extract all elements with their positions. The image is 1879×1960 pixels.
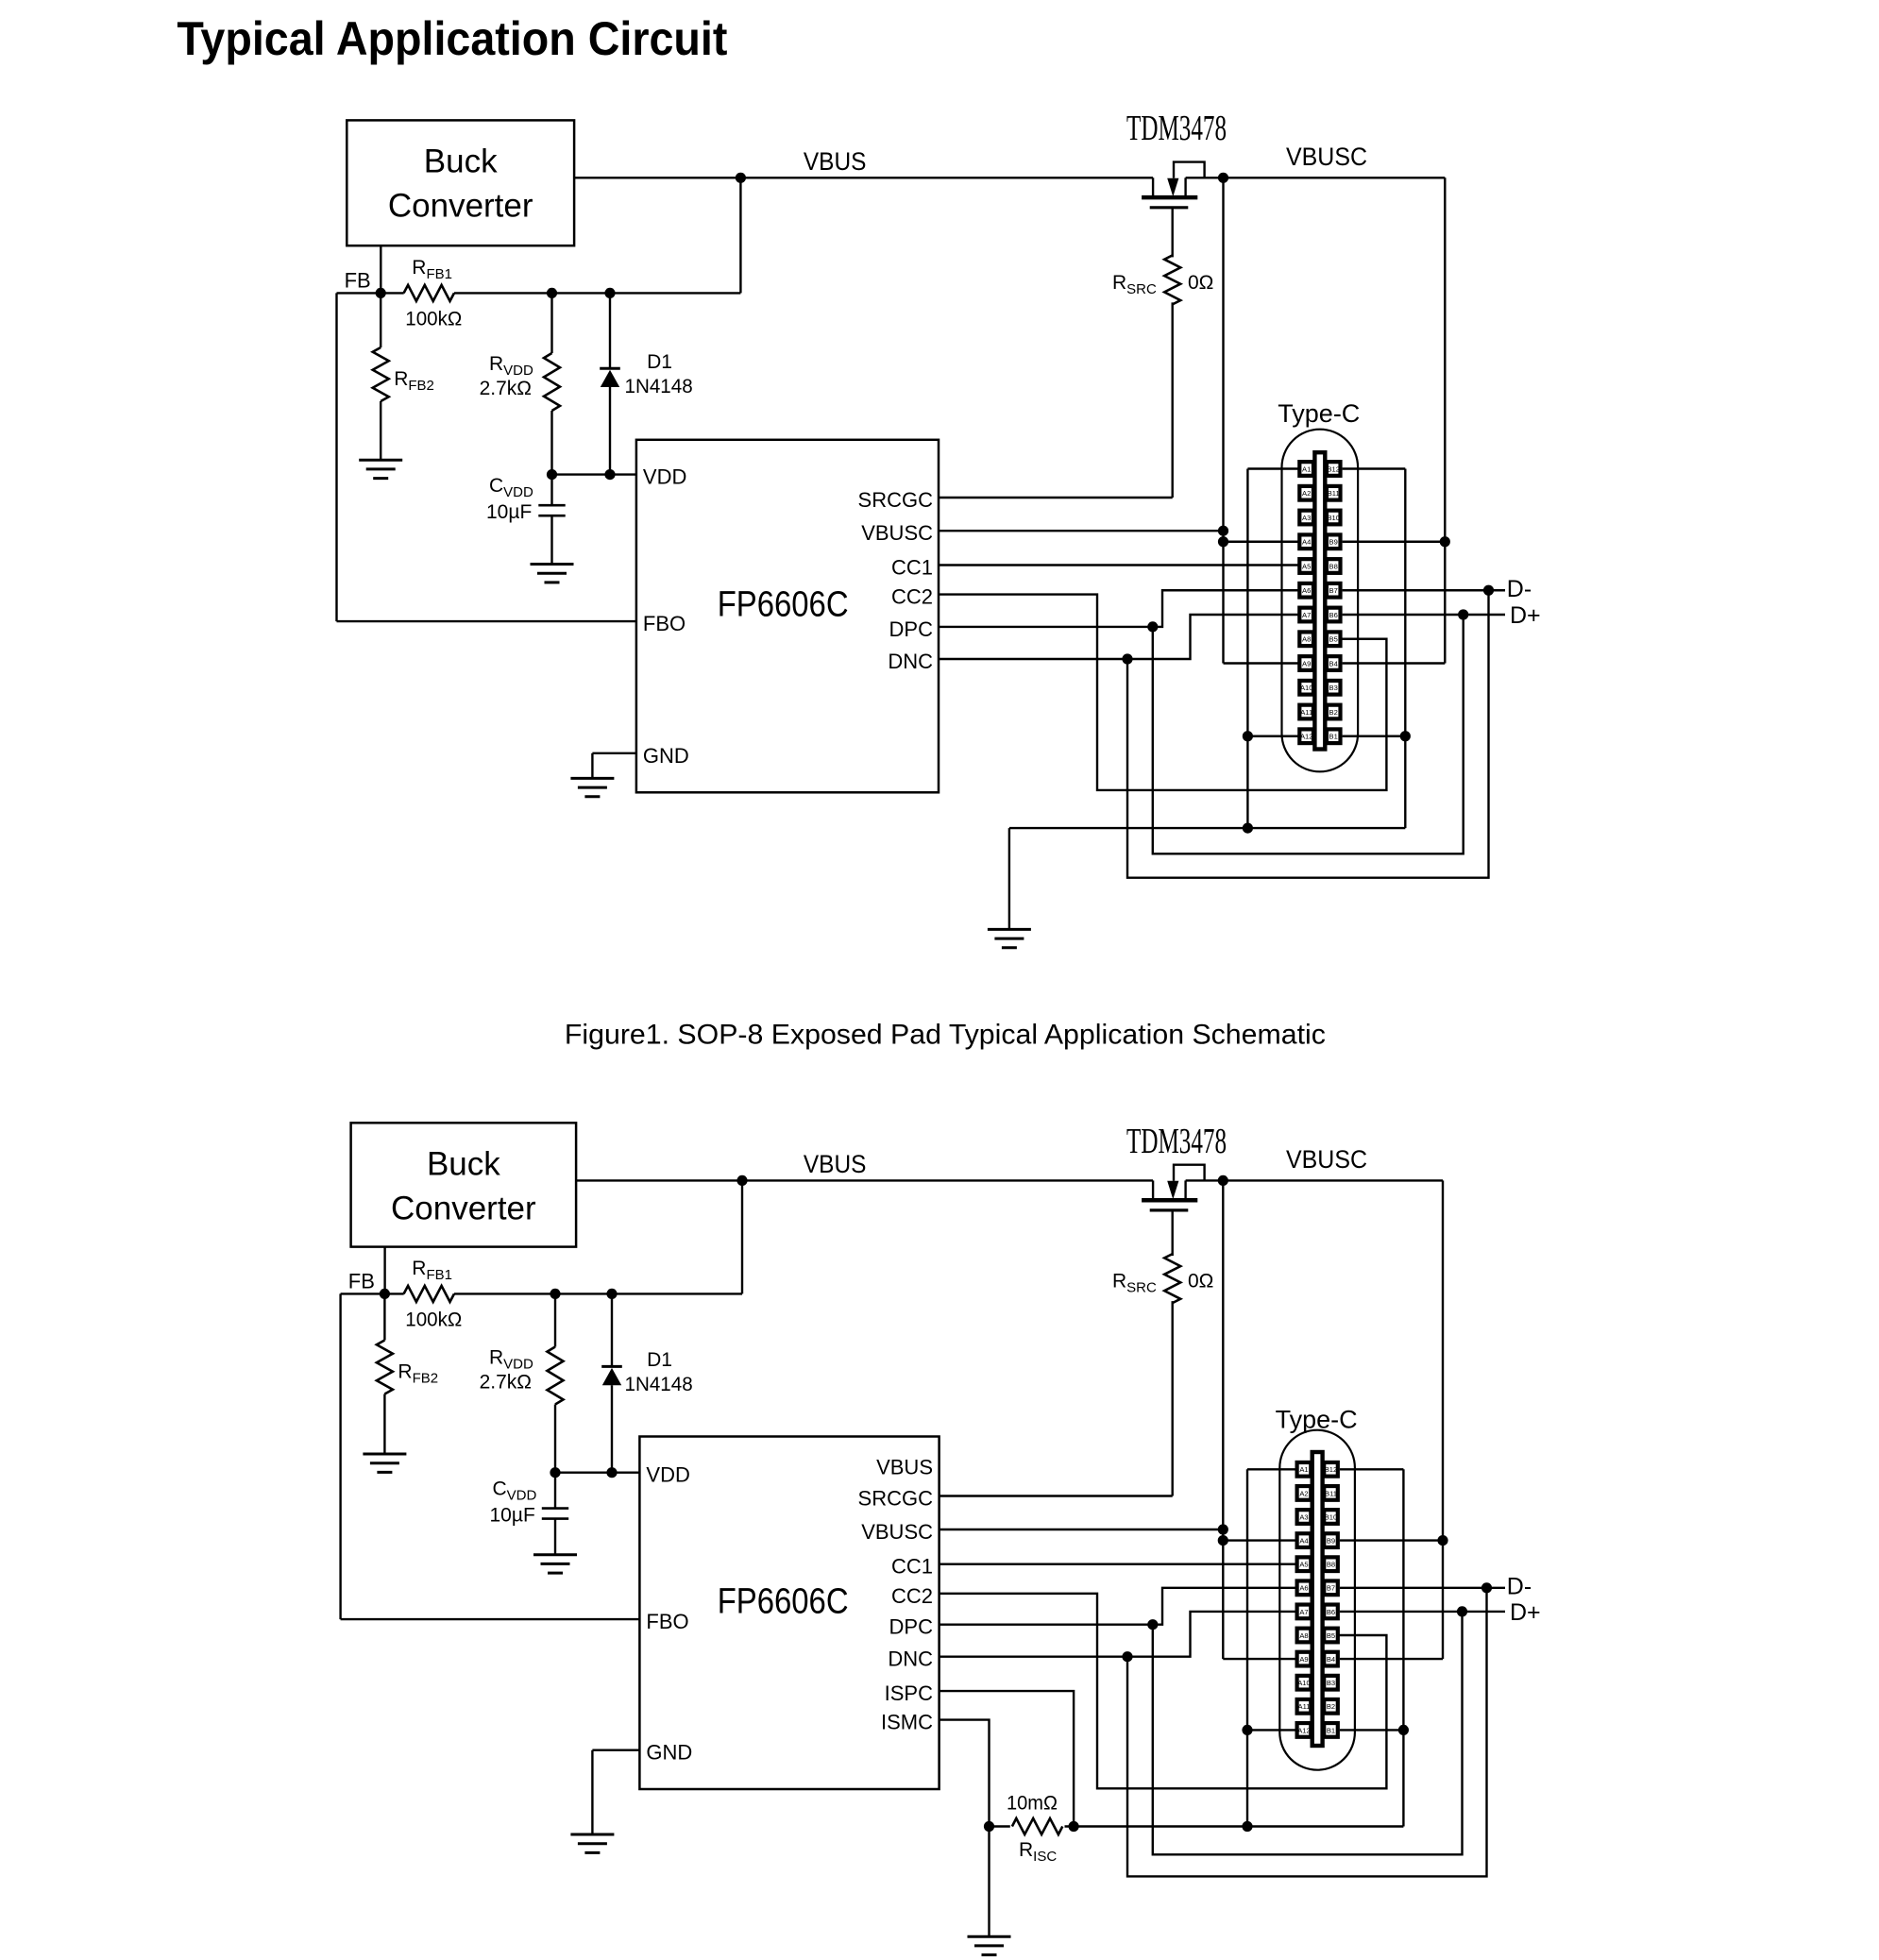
svg-text:DNC: DNC <box>888 1647 933 1671</box>
svg-text:FBO: FBO <box>646 1610 688 1633</box>
connector pin B2 <box>1324 1699 1338 1714</box>
wire pin B6 to D+ <box>1343 614 1505 616</box>
svg-text:100kΩ: 100kΩ <box>405 308 462 329</box>
svg-text:VBUSC: VBUSC <box>1286 143 1367 171</box>
svg-text:VBUSC: VBUSC <box>861 1520 933 1544</box>
svg-text:A4: A4 <box>1299 1537 1308 1546</box>
junction VDD / D1 <box>606 1467 617 1478</box>
wire VBUS from Buck to Q1 source <box>576 1179 1153 1181</box>
svg-text:GND: GND <box>643 744 689 768</box>
wire DNC to pin A7 <box>939 1612 1297 1657</box>
wire into FBO pin <box>341 1618 640 1620</box>
wire FB to RFB1 <box>381 292 404 294</box>
svg-text:VBUS: VBUS <box>804 147 867 176</box>
junction RFB1 line / D1 <box>606 1289 617 1299</box>
wire FB node to left return <box>341 1293 385 1294</box>
svg-text:B7: B7 <box>1329 586 1338 595</box>
IC FP6606C (Figure 1) <box>636 440 939 793</box>
wire to pin A4 <box>1224 541 1300 543</box>
Buck Converter block (Figure 1) <box>347 120 574 245</box>
svg-text:A4: A4 <box>1302 538 1311 547</box>
svg-text:A12: A12 <box>1297 1726 1311 1734</box>
connector pin B4 <box>1327 656 1341 670</box>
svg-text:A11: A11 <box>1298 1702 1311 1711</box>
svg-text:FB: FB <box>348 1270 375 1293</box>
connector pin B11 <box>1327 486 1341 500</box>
svg-text:B1: B1 <box>1329 733 1338 741</box>
svg-text:VDD: VDD <box>646 1463 689 1487</box>
svg-text:A1: A1 <box>1299 1465 1308 1474</box>
wire VBUSC pin of IC <box>939 530 1224 532</box>
wire FB to RFB2 <box>380 293 381 347</box>
connector pin B12 <box>1327 462 1341 476</box>
svg-text:VBUS: VBUS <box>876 1456 933 1479</box>
svg-text:DPC: DPC <box>889 617 934 641</box>
junction D+ <box>1457 1606 1467 1616</box>
connector pin A5 <box>1299 559 1313 573</box>
wire CVDD to ground <box>550 515 552 564</box>
wire RFB1 to VBUS branch <box>454 1293 742 1294</box>
junction node FB <box>376 288 386 298</box>
svg-text:B11: B11 <box>1325 1489 1337 1497</box>
wire RFB1 line to D1 cathode <box>609 293 611 368</box>
connector pin A5 <box>1297 1557 1312 1571</box>
junction ISMC / RISC <box>984 1821 994 1832</box>
svg-text:B5: B5 <box>1329 635 1338 644</box>
svg-text:B2: B2 <box>1329 708 1338 717</box>
svg-text:2.7kΩ: 2.7kΩ <box>480 378 532 399</box>
wire Q1 drain VBUSC <box>1186 177 1446 178</box>
wire to RVDD <box>554 1293 556 1346</box>
transistor Q1 TDM3478 PMOS <box>1152 177 1154 197</box>
wire DPC to D+ <box>1153 615 1464 853</box>
svg-text:A3: A3 <box>1302 514 1311 522</box>
wire to pin A4 <box>1223 1539 1297 1541</box>
resistor RSRC 0ohm <box>1164 1254 1180 1303</box>
wire DNC to D- <box>1127 590 1489 877</box>
svg-text:D1: D1 <box>647 351 672 373</box>
svg-text:A3: A3 <box>1299 1512 1308 1521</box>
connector pin A10 <box>1297 1676 1312 1690</box>
wire GND pin down <box>591 1750 593 1834</box>
wire pin A1 to frame <box>1247 467 1299 469</box>
connector pin A4 <box>1297 1533 1312 1547</box>
svg-text:TDM3478: TDM3478 <box>1126 109 1227 148</box>
wire FB return down <box>339 1293 341 1619</box>
resistor RFB1 <box>404 285 454 301</box>
junction DNC branch <box>1122 1651 1132 1662</box>
wire VBUSC right vertical <box>1442 1180 1444 1659</box>
connector pin B6 <box>1327 608 1341 622</box>
wire pin B9 to VBUSC <box>1343 541 1446 543</box>
svg-text:A8: A8 <box>1302 635 1311 644</box>
wire pin B7 to D- <box>1340 1587 1505 1589</box>
connector pin B12 <box>1324 1462 1338 1477</box>
wire DNC to pin A7 <box>939 615 1300 659</box>
junction A4 branch <box>1218 1535 1228 1546</box>
svg-text:Typical Application Circuit: Typical Application Circuit <box>177 12 727 65</box>
wire RISC to ground <box>988 1827 990 1937</box>
wire Q1 drain VBUSC <box>1186 1179 1443 1181</box>
wire pin B12 to frame <box>1340 1468 1404 1470</box>
svg-text:B12: B12 <box>1327 465 1340 473</box>
connector pin A4 <box>1299 534 1313 549</box>
connector pin B5 <box>1324 1629 1338 1643</box>
svg-text:B7: B7 <box>1327 1584 1335 1593</box>
connector pin B1 <box>1327 729 1341 743</box>
diode D1 1N4148 <box>600 367 620 370</box>
wire pin B4 to VBUSC <box>1343 662 1446 664</box>
svg-text:Type-C: Type-C <box>1278 399 1360 428</box>
svg-text:A5: A5 <box>1302 562 1311 570</box>
wire VBUSC pin of IC <box>939 1529 1224 1530</box>
wire pin A1 to frame <box>1247 1468 1297 1470</box>
junction DNC branch <box>1122 653 1132 664</box>
svg-text:A5: A5 <box>1299 1561 1308 1569</box>
ground below GND pin <box>570 777 614 780</box>
svg-text:D+: D+ <box>1510 602 1541 629</box>
connector pin B10 <box>1324 1510 1338 1524</box>
svg-text:VBUS: VBUS <box>804 1150 867 1178</box>
wire VDD line into FP6606C <box>555 1471 639 1473</box>
wire VBUS from Buck to Q1 source <box>574 177 1153 178</box>
diode D1 1N4148 <box>601 1365 622 1368</box>
svg-text:Figure1. SOP-8 Exposed Pad Typ: Figure1. SOP-8 Exposed Pad Typical Appli… <box>565 1020 1326 1051</box>
wire VBUS down to RFB1 line <box>739 177 741 293</box>
connector pin B1 <box>1324 1723 1338 1737</box>
connector pin A1 <box>1297 1462 1312 1477</box>
wire pin B7 to D- <box>1343 589 1505 591</box>
wire RVDD to VDD line <box>554 1405 556 1473</box>
svg-text:FB: FB <box>345 269 371 293</box>
junction B9 / VBUSC vertical <box>1437 1535 1447 1546</box>
svg-text:2.7kΩ: 2.7kΩ <box>480 1372 532 1394</box>
wire D1 anode to VDD line <box>611 1385 613 1473</box>
svg-text:A12: A12 <box>1300 733 1313 741</box>
connector pin B2 <box>1327 705 1341 719</box>
connector pin B7 <box>1327 583 1341 598</box>
junction VDD / CVDD <box>550 1467 560 1478</box>
svg-text:SRCGC: SRCGC <box>858 1487 934 1511</box>
resistor RVDD <box>544 353 560 411</box>
svg-text:ISMC: ISMC <box>881 1711 933 1734</box>
wire ground line down <box>1008 828 1010 929</box>
connector pin A8 <box>1299 632 1313 646</box>
svg-text:10µF: 10µF <box>490 1505 535 1527</box>
wire VBUS down to RFB1 line <box>741 1180 743 1293</box>
svg-text:Buck: Buck <box>424 144 498 180</box>
wire pin A12 to frame <box>1247 735 1299 737</box>
capacitor CVDD 10uF <box>538 504 565 507</box>
svg-text:B11: B11 <box>1328 489 1340 498</box>
connector pin A9 <box>1297 1652 1312 1666</box>
wire CC2 to pin B5 <box>939 1594 1387 1789</box>
wire pin A12 to frame <box>1247 1729 1297 1731</box>
wire pin B6 to D+ <box>1340 1611 1505 1613</box>
svg-text:B9: B9 <box>1327 1537 1335 1546</box>
wire frame right vertical <box>1402 1469 1404 1826</box>
wire pin B4 to VBUSC <box>1340 1658 1443 1660</box>
wire VDD to CVDD <box>554 1473 556 1509</box>
junction D- <box>1483 585 1494 596</box>
junction frame left / ground line <box>1243 823 1253 834</box>
connector pin B3 <box>1327 681 1341 695</box>
svg-text:D-: D- <box>1507 1574 1532 1600</box>
wire SRCGC pin to RSRC <box>939 1495 1173 1496</box>
svg-text:B12: B12 <box>1325 1465 1338 1474</box>
wire RVDD to VDD line <box>550 411 552 475</box>
wire connector ground line <box>1009 827 1405 829</box>
connector pin B9 <box>1327 534 1341 549</box>
svg-text:A9: A9 <box>1299 1655 1308 1664</box>
wire CC2 to pin B5 <box>939 595 1386 790</box>
IC FP6606C (Figure 2) <box>639 1437 939 1790</box>
resistor RISC 10mohm <box>1012 1818 1062 1834</box>
wire GND pin left <box>592 752 636 754</box>
ground below GND pin <box>570 1833 614 1836</box>
Buck Converter block (Figure 2) <box>351 1123 576 1246</box>
svg-text:10mΩ: 10mΩ <box>1007 1793 1058 1815</box>
svg-text:DPC: DPC <box>889 1615 934 1639</box>
svg-text:CC2: CC2 <box>891 585 933 609</box>
junction B1 frame <box>1400 731 1411 741</box>
svg-text:B10: B10 <box>1325 1512 1338 1521</box>
svg-text:CC2: CC2 <box>891 1584 933 1608</box>
wire pin B9 to VBUSC <box>1340 1539 1443 1541</box>
wire RSRC down to SRCGC line <box>1171 1301 1173 1495</box>
svg-text:GND: GND <box>646 1741 692 1765</box>
wire RISC left stub <box>990 1825 1010 1827</box>
svg-text:FP6606C: FP6606C <box>718 585 849 625</box>
connector pin A9 <box>1299 656 1313 670</box>
junction B1 frame <box>1398 1725 1409 1735</box>
svg-text:B10: B10 <box>1327 514 1340 522</box>
connector tongue <box>1312 1452 1323 1746</box>
junction ISPC / RISC <box>1069 1821 1079 1832</box>
connector pin B10 <box>1327 511 1341 525</box>
wire D1 anode to VDD line <box>609 387 611 475</box>
connector J1 USB Type-C receptacle (Figure 1) <box>1282 430 1359 772</box>
junction D- <box>1481 1582 1492 1593</box>
svg-text:Buck: Buck <box>427 1145 500 1182</box>
connector pin B5 <box>1327 632 1341 646</box>
svg-text:0Ω: 0Ω <box>1188 1271 1213 1293</box>
svg-text:VDD: VDD <box>643 465 686 489</box>
svg-text:B4: B4 <box>1329 659 1338 667</box>
svg-text:A10: A10 <box>1300 684 1313 692</box>
svg-text:B3: B3 <box>1327 1679 1335 1687</box>
svg-text:A10: A10 <box>1297 1679 1311 1687</box>
wire FB return down <box>335 293 337 621</box>
connector pin B8 <box>1324 1557 1338 1571</box>
connector pin B7 <box>1324 1580 1338 1595</box>
connector pin B11 <box>1324 1486 1338 1500</box>
junction DPC branch <box>1147 1619 1158 1630</box>
svg-text:A1: A1 <box>1302 465 1311 473</box>
connector pin A11 <box>1297 1699 1312 1714</box>
wire Q1 gate down to RSRC <box>1171 208 1173 258</box>
connector pin B4 <box>1324 1652 1338 1666</box>
svg-text:DNC: DNC <box>888 650 933 673</box>
svg-text:D+: D+ <box>1510 1599 1541 1626</box>
junction RFB1 line / RVDD <box>547 288 557 298</box>
svg-text:FBO: FBO <box>643 612 686 635</box>
svg-text:B8: B8 <box>1329 562 1338 570</box>
svg-text:A9: A9 <box>1302 659 1311 667</box>
wire VDD to CVDD <box>550 475 552 506</box>
wire to pin A9 <box>1223 1658 1297 1660</box>
resistor RFB2 <box>377 1341 393 1394</box>
connector pin A6 <box>1299 583 1313 598</box>
wire CC1 to pin A5 <box>939 1563 1297 1564</box>
wire SRCGC pin to RSRC <box>939 497 1173 498</box>
wire VBUSC right vertical <box>1444 177 1446 663</box>
wire ISPC to RISC <box>939 1691 1075 1826</box>
resistor RVDD <box>548 1347 564 1405</box>
wire RFB1 to VBUS branch <box>454 292 740 294</box>
svg-text:CC1: CC1 <box>891 556 933 580</box>
svg-text:A6: A6 <box>1302 586 1311 595</box>
resistor RFB2 <box>373 347 389 401</box>
junction D+ <box>1458 609 1468 619</box>
wire FB to RFB1 <box>384 1293 403 1294</box>
wire DPC to pin A6 <box>939 1588 1297 1625</box>
connector pin A8 <box>1297 1629 1312 1643</box>
junction B9 / VBUSC vertical <box>1440 536 1450 547</box>
wire GND pin down <box>591 753 593 779</box>
wire RFB1 line to D1 cathode <box>611 1293 613 1366</box>
ground below RFB2 <box>359 459 402 462</box>
wire DPC to D+ <box>1153 1612 1463 1854</box>
svg-text:B9: B9 <box>1329 538 1338 547</box>
connector pin B9 <box>1324 1533 1338 1547</box>
svg-text:TDM3478: TDM3478 <box>1126 1122 1227 1161</box>
svg-text:A2: A2 <box>1302 489 1311 498</box>
connector pin A3 <box>1299 511 1313 525</box>
svg-text:A8: A8 <box>1299 1631 1308 1640</box>
junction frame left / ground line <box>1242 1821 1252 1832</box>
ground below RISC <box>968 1935 1011 1938</box>
ground below connector <box>988 928 1031 931</box>
junction VBUS / feedback branch <box>736 1175 747 1186</box>
junction VBUSC pin wire <box>1218 526 1228 536</box>
svg-text:FP6606C: FP6606C <box>718 1581 849 1621</box>
resistor RSRC 0ohm <box>1164 255 1180 304</box>
wire pin B1 to frame <box>1340 1729 1404 1731</box>
wire FB to RFB2 <box>383 1293 385 1340</box>
svg-text:1N4148: 1N4148 <box>625 376 693 397</box>
wire frame right vertical <box>1404 469 1406 829</box>
wire ISMC to RISC <box>939 1720 990 1827</box>
transistor Q1 TDM3478 PMOS <box>1152 1180 1154 1200</box>
wire GND pin left <box>592 1749 639 1750</box>
svg-text:Converter: Converter <box>391 1191 536 1227</box>
wire FB node to left return <box>337 292 381 294</box>
connector pin A2 <box>1299 486 1313 500</box>
junction VBUSC at Q1 drain <box>1218 1175 1228 1186</box>
junction VBUSC at Q1 drain <box>1218 173 1228 183</box>
svg-text:A2: A2 <box>1299 1489 1308 1497</box>
wire into FBO pin <box>337 620 636 622</box>
ground below RFB2 <box>363 1453 406 1456</box>
wire frame left vertical <box>1246 1469 1248 1826</box>
junction node FB <box>380 1289 390 1299</box>
junction A12 frame <box>1242 1725 1252 1735</box>
svg-text:B4: B4 <box>1327 1655 1335 1664</box>
wire pin B1 to frame <box>1343 735 1406 737</box>
wire pin B12 to frame <box>1343 467 1406 469</box>
wire CVDD to ground <box>554 1519 556 1555</box>
junction A4 branch <box>1218 536 1228 547</box>
connector pin A6 <box>1297 1580 1312 1595</box>
wire RFB2 to ground <box>383 1394 385 1455</box>
connector pin A11 <box>1299 705 1313 719</box>
connector pin A10 <box>1299 681 1313 695</box>
svg-text:B8: B8 <box>1327 1561 1335 1569</box>
wire DNC to D- <box>1127 1588 1487 1877</box>
wire to pin A9 <box>1224 662 1300 664</box>
svg-text:10µF: 10µF <box>486 501 532 523</box>
connector pin A7 <box>1297 1605 1312 1619</box>
svg-text:D1: D1 <box>647 1349 672 1371</box>
wire Buck FB pin down <box>383 1247 385 1294</box>
connector pin A1 <box>1299 462 1313 476</box>
svg-text:B6: B6 <box>1329 611 1338 619</box>
svg-text:B5: B5 <box>1327 1631 1335 1640</box>
svg-text:1N4148: 1N4148 <box>625 1374 693 1395</box>
junction DPC branch <box>1147 621 1158 632</box>
connector pin A12 <box>1299 729 1313 743</box>
junction VBUSC pin wire <box>1218 1524 1228 1534</box>
svg-text:VBUSC: VBUSC <box>1286 1145 1367 1174</box>
junction VDD / D1 <box>604 469 615 480</box>
svg-text:0Ω: 0Ω <box>1188 272 1213 294</box>
wire to RVDD <box>550 293 552 353</box>
svg-text:B1: B1 <box>1327 1726 1335 1734</box>
svg-text:B6: B6 <box>1327 1608 1335 1616</box>
wire connector ground line <box>1065 1825 1404 1827</box>
resistor RFB1 <box>404 1286 454 1302</box>
svg-text:VBUSC: VBUSC <box>861 521 933 545</box>
wire CC1 to pin A5 <box>939 564 1300 566</box>
svg-text:ISPC: ISPC <box>885 1681 933 1705</box>
wire Buck FB pin down <box>380 245 381 293</box>
svg-text:Type-C: Type-C <box>1276 1406 1358 1434</box>
capacitor CVDD 10uF <box>542 1507 568 1510</box>
connector tongue <box>1314 452 1325 749</box>
svg-text:CC1: CC1 <box>891 1555 933 1579</box>
svg-text:100kΩ: 100kΩ <box>405 1309 462 1330</box>
ground below CVDD <box>533 1553 577 1556</box>
wire VBUSC vertical to A4/A9 <box>1222 1180 1224 1659</box>
wire RSRC down to SRCGC line <box>1171 302 1173 498</box>
svg-text:Converter: Converter <box>388 188 533 225</box>
svg-text:D-: D- <box>1507 576 1532 602</box>
junction RFB1 line / D1 <box>604 288 615 298</box>
wire frame left vertical <box>1246 469 1248 829</box>
connector pin A7 <box>1299 608 1313 622</box>
junction A12 frame <box>1243 731 1253 741</box>
connector pin A12 <box>1297 1723 1312 1737</box>
svg-text:A6: A6 <box>1299 1584 1308 1593</box>
svg-text:A11: A11 <box>1300 708 1312 717</box>
wire VBUSC vertical to A4/A9 <box>1222 177 1224 663</box>
connector J1 USB Type-C receptacle (Figure 2) <box>1279 1430 1355 1770</box>
svg-text:B2: B2 <box>1327 1702 1335 1711</box>
junction VBUS / feedback branch <box>736 173 746 183</box>
wire VDD line into FP6606C <box>552 473 636 475</box>
connector pin A3 <box>1297 1510 1312 1524</box>
